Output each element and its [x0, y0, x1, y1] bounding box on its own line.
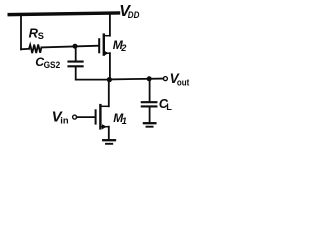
RS label: [29, 26, 44, 42]
Vout label: [170, 71, 190, 88]
wire junction down to CGS2: [75, 46, 77, 61]
svg-text:GS2: GS2: [44, 60, 61, 70]
node gate junction: [73, 44, 78, 49]
wire CL top: [149, 79, 151, 102]
wire mid node to Vout: [109, 78, 163, 81]
svg-text:1: 1: [122, 116, 127, 126]
terminal Vout: [163, 77, 167, 81]
CL label: [159, 97, 172, 112]
svg-text:in: in: [60, 114, 69, 125]
svg-text:DD: DD: [128, 10, 140, 21]
ground M1: [103, 139, 115, 141]
wire CL to ground: [149, 107, 151, 122]
Vin label: [52, 109, 69, 126]
svg-text:2: 2: [120, 43, 127, 53]
M2 label: [113, 38, 127, 53]
wire VDD rail: [9, 13, 118, 15]
wire M1 drain to mid node: [108, 81, 110, 107]
svg-text:S: S: [38, 31, 44, 41]
capacitor CL: [142, 101, 157, 103]
wire RS to M2 gate: [41, 46, 98, 48]
wire M1 source to ground: [108, 127, 110, 139]
node CL junction: [147, 76, 152, 81]
wire M2 drain to VDD rail: [109, 14, 111, 36]
wire VDD rail to RS: [20, 14, 22, 49]
capacitor CGS2: [69, 61, 83, 63]
transistor M2: [99, 35, 110, 56]
node mid junction: [107, 77, 112, 82]
wire Vin to M1 gate: [77, 116, 96, 118]
VDD label: [119, 3, 139, 21]
resistor RS: [29, 44, 41, 53]
svg-text:L: L: [166, 102, 172, 112]
M1 label: [113, 111, 127, 126]
terminal Vin: [73, 115, 77, 119]
wire CGS2 to mid node: [76, 67, 110, 80]
CGS2 label: [35, 55, 60, 70]
ground CL: [144, 122, 156, 124]
transistor M1: [96, 105, 109, 129]
svg-text:out: out: [177, 77, 190, 88]
wire M2 source to mid node: [109, 53, 111, 79]
